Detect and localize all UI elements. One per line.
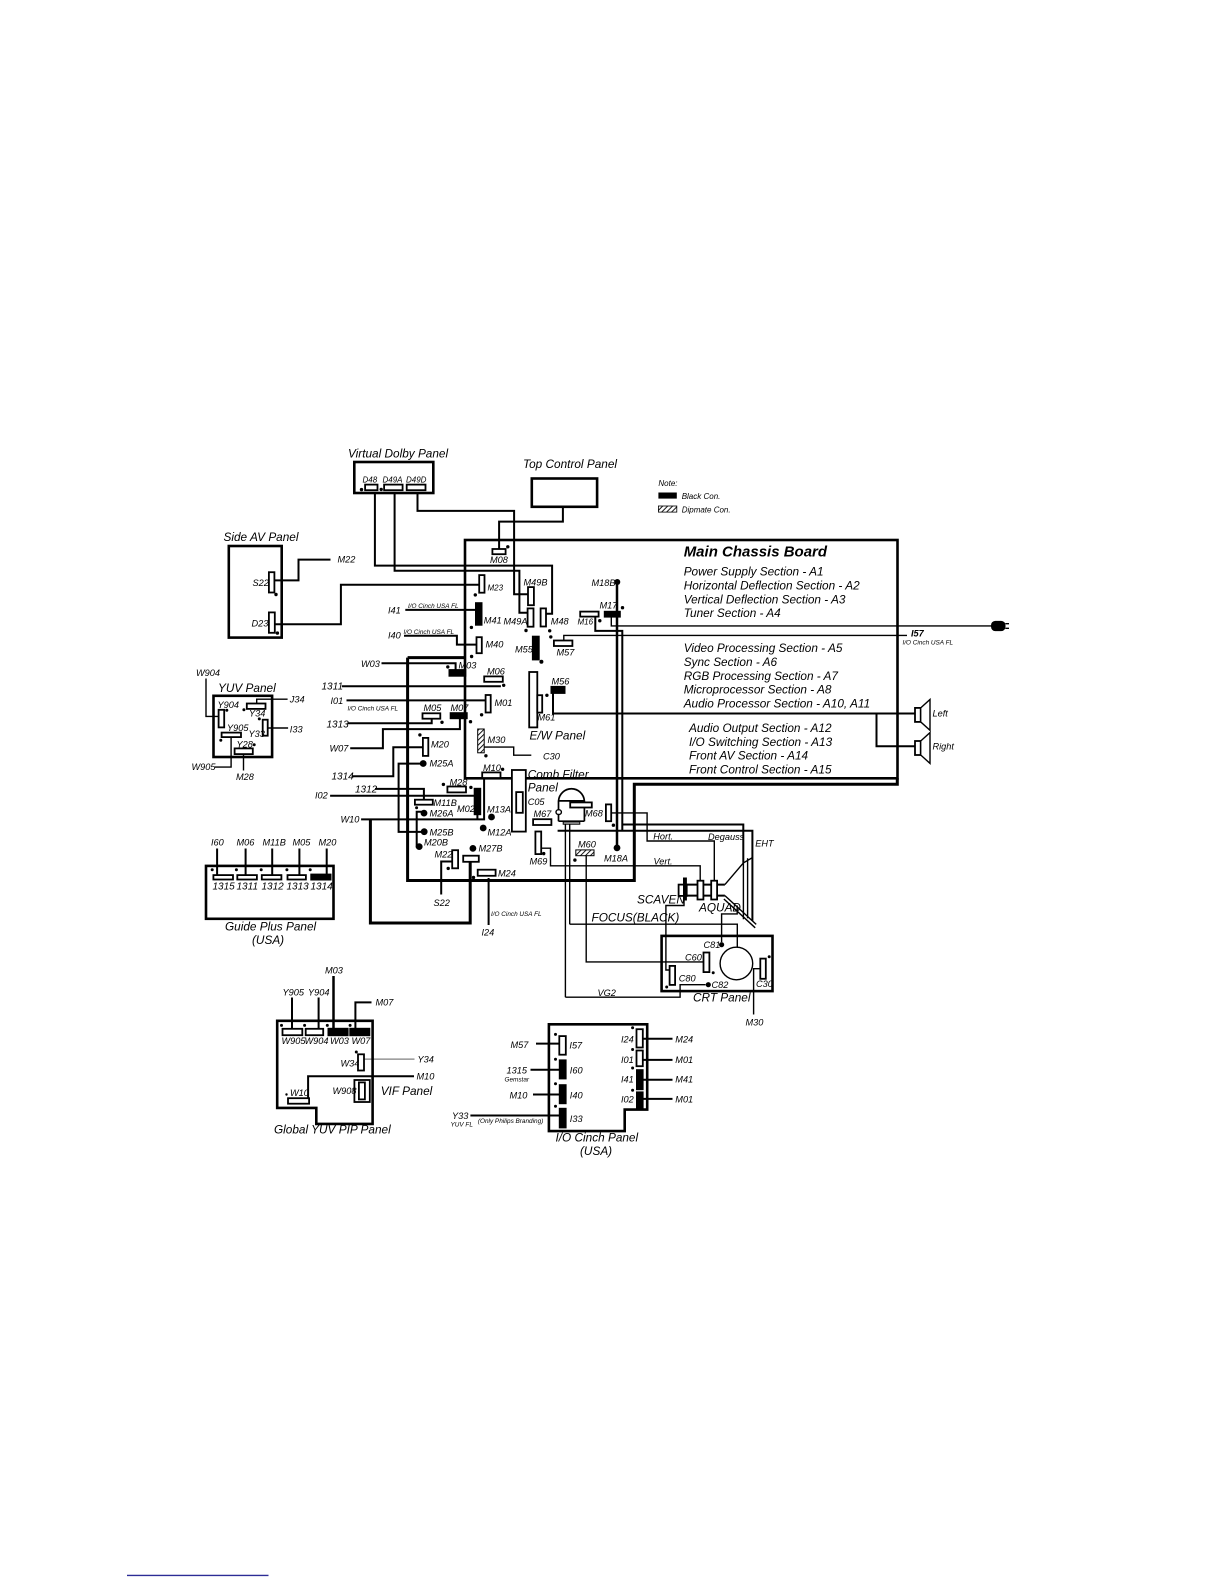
panel Top Control Panel box [523,457,617,507]
svg-text:C81: C81 [704,940,721,950]
svg-text:W07: W07 [330,744,350,754]
svg-text:Y904: Y904 [308,988,329,998]
svg-text:M57: M57 [511,1040,530,1050]
node M25A [420,759,454,769]
connector S22 [253,572,275,592]
wire M30 label to C30 [746,969,765,1028]
svg-text:I24: I24 [482,928,495,938]
connector M24 [472,869,516,880]
svg-text:VIF Panel: VIF Panel [381,1084,433,1098]
wire SCAVEN to C80 [666,901,684,971]
svg-text:M06: M06 [237,838,256,848]
svg-text:VG2: VG2 [598,988,616,998]
wire M10 to I40 [510,1091,560,1101]
connector I24 [621,1026,643,1047]
wire 1311 to M06 [322,682,501,693]
svg-text:M60: M60 [578,840,597,850]
CRT neck cap [679,885,687,896]
CRT neck scaven clamp black [683,878,687,901]
svg-text:I57: I57 [569,1041,583,1051]
wire M68 to Hort and yoke ring [611,813,714,881]
svg-text:M05: M05 [424,703,443,713]
svg-text:Y33: Y33 [249,729,266,739]
wire 1315 Gemstar to I60 [505,1066,560,1084]
connector M08 [490,545,509,565]
wire thick loop W10 down to M27B riser [370,819,470,923]
connector C60 [685,953,715,975]
wire I41 to M41 [388,603,476,616]
svg-text:I01: I01 [331,696,344,706]
wire Degauss branch [622,825,743,863]
svg-text:1314: 1314 [332,772,355,783]
connector M10 [482,763,504,778]
svg-text:M67: M67 [534,809,553,819]
svg-text:1313: 1313 [327,720,350,731]
connector M49B [524,578,548,606]
speaker Right [915,733,954,764]
svg-text:Y904: Y904 [218,700,239,710]
svg-text:M20B: M20B [424,838,448,848]
wire M60 to C60 [586,856,703,962]
svg-text:Horizontal Deflection Section: Horizontal Deflection Section - A2 [684,578,860,592]
svg-text:1314: 1314 [311,882,334,893]
connector 1314 black [311,838,338,893]
svg-text:W905: W905 [282,1036,307,1046]
svg-text:D49D: D49D [406,476,427,485]
svg-text:M55: M55 [515,645,534,655]
svg-text:(Only Philips Branding): (Only Philips Branding) [478,1118,543,1125]
svg-text:Audio Output Section - A12: Audio Output Section - A12 [688,721,832,735]
panel Main Chassis Board box [465,540,898,778]
connector C80 [665,966,696,989]
svg-text:Front AV Section - A14: Front AV Section - A14 [689,749,809,763]
svg-text:I57: I57 [911,629,925,639]
connector Y28 [235,739,254,754]
connector I41 (cinch) black [621,1067,643,1090]
CRT neck ring2 [711,881,717,900]
svg-text:YUV FL: YUV FL [451,1122,474,1129]
connector M56 black [545,677,570,698]
connector D49A [383,476,403,491]
dots PIP pins [280,1024,352,1027]
svg-text:I33: I33 [570,1114,584,1124]
node M12A [480,825,512,838]
wire M57 to I57 [511,1040,560,1050]
svg-text:AQUAD: AQUAD [698,901,741,915]
svg-text:1312: 1312 [262,882,285,893]
connector I57 [554,1033,583,1055]
wire Y904 to W904 [308,988,329,1029]
footer blue line [127,1574,269,1576]
svg-text:EHT: EHT [755,839,775,849]
connector M02 black [457,788,481,814]
wire FOCUS to CRT socket [570,911,738,948]
wire Top Control Panel to M08 [499,507,563,551]
wire M28 from Y28 [236,754,255,782]
svg-text:(USA): (USA) [252,933,284,947]
wire I02 to M01 label [643,1095,693,1105]
svg-text:W10: W10 [341,815,361,825]
svg-text:I01: I01 [621,1055,634,1065]
connector M67 [533,809,552,825]
svg-text:Side AV Panel: Side AV Panel [224,530,299,544]
svg-text:M68: M68 [585,809,604,819]
connector M48 [541,608,570,632]
wire 1312 to M11B [355,785,424,800]
connector W904 (PIP) [305,1029,329,1046]
wire yoke base to EHT [558,831,753,921]
panel Virtual Dolby Panel box [348,447,448,494]
connector 1313 [287,838,312,893]
wire S22 to M22 label [274,555,355,581]
svg-text:M02: M02 [457,804,475,814]
CRT neck ring1 [698,881,704,900]
wire M17 to mains plug [611,617,991,626]
svg-text:W904: W904 [305,1036,329,1046]
connector C30 (crt) [756,955,774,989]
connector Y905 [222,723,250,737]
wire M16 down to funnel base [595,617,622,831]
svg-text:M07: M07 [451,703,470,713]
connector M68 [606,804,611,821]
wire D49A to M49A [395,493,528,613]
svg-text:W10: W10 [290,1088,310,1098]
wire 1314 to M20 [332,747,423,782]
svg-text:I02: I02 [315,791,328,801]
svg-text:E/W Panel: E/W Panel [530,729,586,743]
svg-text:M16: M16 [578,618,594,627]
connector M06 [484,667,506,688]
panel CRT Panel box [662,936,773,1005]
svg-text:Power Supply Section - A1: Power Supply Section - A1 [684,565,824,579]
svg-text:Y34: Y34 [249,709,265,719]
wire I01 to M01 [331,696,486,713]
svg-text:I/O Cinch USA FL: I/O Cinch USA FL [404,629,455,636]
dot pin1 Y904 [225,709,228,712]
connector M41 black [470,603,502,629]
svg-text:M30: M30 [746,1018,765,1028]
svg-text:Y34: Y34 [418,1055,434,1065]
connector 1315 [211,838,235,893]
svg-text:C30: C30 [756,979,774,989]
node M26A [421,809,454,819]
connector D23 [252,612,275,632]
svg-text:M24: M24 [498,869,516,879]
panel YUV Panel box [214,681,277,757]
svg-text:M05: M05 [293,838,312,848]
connector M11B [415,798,457,809]
svg-text:M18B: M18B [592,578,616,588]
svg-text:1311: 1311 [322,682,344,693]
dot below M68 [612,824,615,827]
svg-text:Microprocessor Section - A8: Microprocessor Section - A8 [684,683,832,697]
svg-text:J34: J34 [289,695,305,705]
svg-text:M07: M07 [376,998,395,1008]
svg-text:M40: M40 [486,640,505,650]
connector I40 black [554,1082,583,1104]
svg-text:M08: M08 [490,555,509,565]
wire D49D to M49B [418,493,529,594]
svg-text:SCAVEN: SCAVEN [637,893,685,907]
svg-text:W34: W34 [341,1059,360,1069]
svg-text:M11B: M11B [263,838,286,848]
svg-text:1315: 1315 [507,1066,528,1076]
node M27B [470,844,503,854]
svg-text:M25B: M25B [430,828,454,838]
dots guide plus pins [211,868,312,871]
svg-text:Hort.: Hort. [653,832,673,842]
node M18B [592,578,621,588]
connector M57 [549,635,575,657]
CRT funnel [724,858,756,928]
svg-text:D49A: D49A [383,476,403,485]
legend Note [658,479,730,515]
wire VG2 to C82 [565,985,705,998]
svg-text:M27B: M27B [479,844,503,854]
svg-text:I40: I40 [570,1091,584,1101]
deflection yoke dome [556,789,604,824]
svg-text:M01: M01 [675,1095,693,1105]
svg-text:Y905: Y905 [283,988,305,998]
connector M05 [423,703,444,724]
wire W904 to Y904 [196,668,220,716]
wire W03 to M03 [361,659,456,670]
connector M22 (board) [435,850,459,871]
svg-text:Degauss: Degauss [708,832,745,842]
svg-text:M17: M17 [600,601,619,611]
svg-text:C30: C30 [543,752,561,762]
svg-text:1311: 1311 [237,882,259,893]
svg-text:I02: I02 [621,1095,634,1105]
speaker Left [915,700,948,731]
svg-text:M56: M56 [552,677,571,687]
connector W908 [333,1080,370,1102]
svg-text:I24: I24 [621,1035,634,1045]
wire M24 to I24 label [482,878,542,938]
svg-text:Sync Section - A6: Sync Section - A6 [684,655,778,669]
svg-text:I/O Cinch USA FL: I/O Cinch USA FL [903,640,954,647]
dot pin1 D23 [276,631,279,634]
svg-text:I33: I33 [290,725,304,735]
panel I/O Cinch Panel outline [549,1024,647,1158]
connector M60 hatched [573,840,597,862]
svg-text:I41: I41 [388,606,401,616]
svg-text:(USA): (USA) [580,1144,612,1158]
wire link M25A to M25B [399,764,421,832]
svg-text:M01: M01 [675,1055,693,1065]
dot pin1 D49A [380,488,383,491]
svg-text:I/O Cinch USA FL: I/O Cinch USA FL [348,706,399,713]
svg-text:M57: M57 [557,648,576,658]
connector M23 [474,575,504,597]
svg-text:1315: 1315 [213,882,236,893]
svg-text:M01: M01 [495,698,513,708]
node C81 [704,940,725,950]
node M25B [421,828,454,838]
svg-text:I41: I41 [621,1075,634,1085]
wire I33 from Y33 [268,725,304,735]
svg-text:S22: S22 [434,898,450,908]
svg-text:M13A: M13A [487,805,511,815]
svg-text:M11B: M11B [434,798,457,808]
svg-text:YUV Panel: YUV Panel [218,681,276,695]
svg-text:W904: W904 [196,668,220,678]
wire M07 to W07 [355,998,394,1029]
svg-text:C82: C82 [712,980,729,990]
wire M30 to C30 label [484,747,560,761]
svg-text:I/O Cinch Panel: I/O Cinch Panel [556,1131,639,1145]
svg-text:M28: M28 [236,772,255,782]
connector I60 black [554,1058,583,1079]
connector W07 (PIP) black [350,1028,371,1046]
svg-text:Note:: Note: [658,479,677,488]
connector M17 black [600,601,625,618]
svg-text:Global YUV PIP Panel: Global YUV PIP Panel [274,1123,391,1137]
svg-text:I60: I60 [570,1066,584,1076]
mains plug [991,621,1009,631]
connector M16 [578,612,602,627]
svg-text:M10: M10 [417,1072,436,1082]
svg-text:C60: C60 [685,953,703,963]
node M13A [487,805,511,821]
connector D49D [406,476,427,491]
connector 1312 [262,838,286,893]
svg-text:M24: M24 [675,1035,693,1045]
wire Y33 to I33 [451,1111,560,1129]
wire 1313 to M05 [327,718,432,730]
connector I01 [621,1048,643,1066]
wire I40 to M40 [388,629,477,645]
dot pin1 S22 [274,593,277,596]
svg-text:M22: M22 [435,850,453,860]
wire M10 to W10 [308,1072,435,1099]
svg-text:C05: C05 [528,797,546,807]
svg-text:D48: D48 [363,476,378,485]
svg-text:M18A: M18A [604,854,628,864]
svg-text:M49B: M49B [524,578,548,588]
svg-text:Video Processing Section - A5: Video Processing Section - A5 [684,641,843,655]
connector 1311 [237,838,259,893]
svg-text:Vert.: Vert. [654,857,673,867]
svg-text:M12A: M12A [488,828,512,838]
wire W905 from Y905 [192,737,232,772]
panel Global YUV PIP Panel outline [274,1021,391,1137]
dot pin1 Y28 [253,743,256,746]
svg-text:M69: M69 [530,857,548,867]
connector M20 [418,733,450,756]
wire Y905 to W905 [283,988,305,1029]
svg-text:Guide Plus Panel: Guide Plus Panel [225,920,317,934]
svg-text:M26A: M26A [430,809,454,819]
svg-text:Audio Processor Section - A10,: Audio Processor Section - A10, A11 [683,697,870,711]
wire I01 to M01 label [643,1055,693,1065]
svg-text:I40: I40 [388,631,402,641]
connector M49A [504,608,534,632]
wire M03 to W03 [325,966,344,1029]
node C82 [706,980,729,990]
connector M01 [480,695,512,717]
dot pin1 D48 [360,488,363,491]
svg-text:Y28: Y28 [237,739,254,749]
wire anode to C81 [722,906,738,943]
svg-text:Tuner Section - A4: Tuner Section - A4 [684,606,781,620]
wire M57 to I57 label right [564,629,954,647]
wire J34 from Y34 [257,695,305,705]
svg-text:Virtual Dolby Panel: Virtual Dolby Panel [348,447,448,461]
svg-text:I/O Switching Section - A13: I/O Switching Section - A13 [689,735,833,749]
connector M40 [470,637,504,658]
CRT socket circle [720,947,753,980]
svg-text:M30: M30 [488,735,507,745]
connector I33 black [554,1105,583,1128]
node M18A [604,845,628,864]
wire Y34 thin [364,1055,434,1065]
wire thick loop W03 down and around to board right [408,658,898,881]
svg-text:M10: M10 [483,763,502,773]
dot pin1 Y33 [258,717,261,720]
connector I02 (cinch) black [621,1089,643,1109]
svg-text:C80: C80 [679,974,697,984]
svg-text:I60: I60 [211,838,225,848]
svg-text:Dipmate Con.: Dipmate Con. [682,506,731,515]
wire M56 to speakers [553,694,915,747]
wire yoke wires down (VG2 / FOCUS pair) [565,824,569,997]
node M20B [416,838,448,850]
svg-text:Top Control Panel: Top Control Panel [523,457,617,471]
svg-text:Vertical Deflection Section -: Vertical Deflection Section - A3 [684,592,846,606]
svg-text:M28: M28 [450,778,469,788]
connector Y34 [247,704,266,719]
svg-text:M41: M41 [484,616,502,626]
wire M22 to S22 label [434,862,453,909]
dot pin1 Y905 [219,739,222,742]
connector W10 [285,1088,309,1104]
svg-text:W03: W03 [361,659,381,669]
panel Side AV Panel box [224,530,299,638]
wire I02 to M02 [315,791,475,801]
svg-text:Y905: Y905 [227,723,249,733]
svg-text:M20: M20 [319,838,338,848]
connector M69 [530,832,548,867]
svg-text:W908: W908 [333,1086,358,1096]
svg-text:W905: W905 [192,762,217,772]
svg-text:M49A: M49A [504,617,528,627]
svg-text:M25A: M25A [430,759,454,769]
connector D48 [363,476,378,491]
svg-text:I/O Cinch USA FL: I/O Cinch USA FL [491,911,542,918]
svg-text:Right: Right [933,742,955,752]
panel E/W big rect [529,672,585,743]
svg-text:M41: M41 [675,1075,693,1085]
svg-text:1312: 1312 [355,785,378,796]
svg-text:Y33: Y33 [452,1111,469,1121]
panel Guide Plus Panel box [206,866,334,947]
svg-text:W07: W07 [352,1036,372,1046]
svg-text:I/O Cinch USA FL: I/O Cinch USA FL [408,603,459,610]
connector W905 (PIP) [282,1029,307,1046]
CRT neck tube [687,885,725,896]
wire I41 to M41 label [643,1075,693,1085]
connector M61 [537,695,555,722]
connector Y904 [218,700,239,727]
connector M55 black [515,636,543,664]
wire stub into board at y657 [408,656,465,659]
wire D48 to M48 [375,493,552,614]
svg-text:CRT Panel: CRT Panel [693,991,751,1005]
svg-text:M22: M22 [338,555,356,565]
connector M27B rect [463,856,479,862]
svg-text:M61: M61 [538,713,556,723]
